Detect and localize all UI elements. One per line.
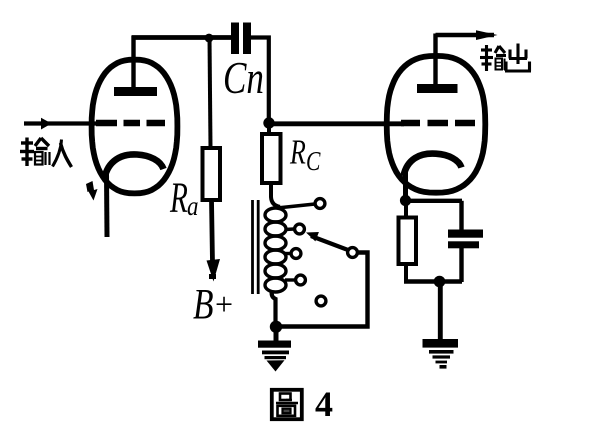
wire node B to ground (274, 327, 279, 341)
output wire (436, 30, 498, 40)
wire top rail (132, 35, 232, 40)
ground G2 (423, 339, 459, 369)
svg-text:R: R (289, 133, 306, 172)
switch contact 1 (315, 199, 325, 209)
node B (270, 321, 282, 333)
capacitor Cn (231, 23, 251, 55)
switch contact 5 (free) (316, 296, 326, 306)
tube V1 envelope (92, 60, 178, 194)
cathode annotation arrow (86, 181, 98, 201)
svg-text:a: a (187, 192, 198, 221)
switch contact 2 (295, 224, 305, 234)
label Cn (223, 53, 264, 103)
input wire (24, 118, 100, 130)
tube V2 envelope (387, 56, 486, 193)
switch tap wire 2 (285, 227, 294, 231)
wire network bottom (404, 279, 462, 283)
node A (263, 117, 274, 128)
svg-text:R: R (169, 173, 188, 221)
node C (cathode junction) (400, 195, 411, 206)
svg-text:+: + (215, 286, 233, 322)
label B+ (193, 282, 233, 329)
resistor Rk (399, 203, 417, 282)
svg-text:Cn: Cn (223, 53, 264, 103)
tube V1 cathode K1 (105, 154, 164, 237)
svg-text:4: 4 (315, 384, 333, 424)
wire coil bottom (272, 290, 276, 327)
wire switch return (277, 253, 368, 327)
switch contact 3 (291, 249, 301, 259)
inductor L1 core (253, 200, 259, 294)
tube V1 grid G1 (dashed) (96, 120, 165, 127)
wire node A to V2 grid (269, 121, 405, 126)
switch tap wire 1 (277, 204, 315, 208)
label Ra (169, 173, 198, 221)
tube V1 plate P1 (114, 36, 157, 96)
wire cathode network top (406, 201, 463, 231)
label 输出 (output) (480, 44, 531, 72)
ground G1 (258, 341, 291, 372)
tube V2 cathode K2 (404, 154, 462, 199)
switch pivot (348, 248, 358, 258)
switch contact 4 (296, 275, 306, 285)
node D (434, 276, 446, 288)
tube V2 plate P2 (417, 34, 458, 94)
wire Ra drop (210, 37, 211, 148)
switch arm S1 (306, 232, 348, 250)
resistor Rc (262, 122, 281, 183)
capacitor Ck (448, 230, 483, 283)
label Rc (289, 133, 321, 177)
wire Rc to coil (271, 183, 280, 207)
tube V2 grid G2 (dashed) (401, 120, 475, 127)
inductor L1 winding (265, 208, 286, 292)
label 输入 (input) (20, 138, 72, 168)
svg-text:C: C (306, 147, 321, 177)
wire Cn to node A (251, 38, 269, 123)
svg-text:B: B (193, 282, 213, 329)
node top junction (205, 34, 214, 43)
caption 圖 4 (272, 390, 302, 419)
wire node D to ground (438, 282, 443, 340)
switch tap wire 3 (285, 252, 291, 255)
B+ feed arrow (207, 200, 221, 282)
switch tap wire 4 (285, 278, 295, 281)
resistor Ra (203, 148, 221, 200)
